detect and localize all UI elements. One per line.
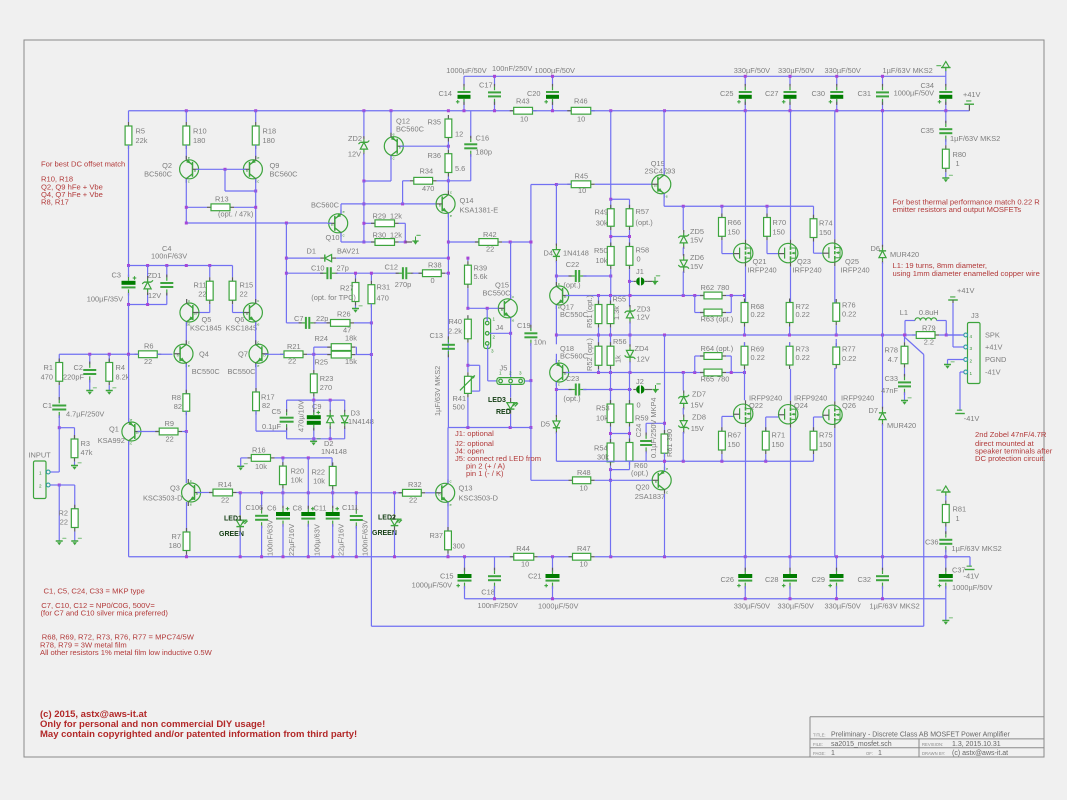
resistor R46: [567, 110, 571, 112]
resistor R74: [813, 206, 815, 219]
svg-text:ZD6: ZD6: [690, 253, 704, 262]
transistor Q1: [122, 422, 141, 441]
wire Q9 collector down to Q6: [255, 179, 257, 303]
wire junction up to R24: [313, 347, 315, 354]
wire Q1 base to R9: [138, 431, 160, 433]
jumper J5: [497, 378, 525, 385]
svg-text:FILE:: FILE:: [813, 742, 823, 747]
svg-text:KSC3503-D: KSC3503-D: [459, 494, 498, 503]
svg-text:0.22: 0.22: [751, 310, 765, 319]
wire Q14 base wire: [364, 203, 436, 205]
wire base node column down to rail: [610, 480, 612, 556]
wire D4 column top: [555, 185, 557, 246]
ground below C33: [904, 392, 906, 400]
wire Q10 base bus connect: [328, 222, 332, 224]
wire R40 to R41: [467, 343, 469, 373]
resistor R5: [128, 111, 130, 122]
svg-text:780: 780: [717, 283, 729, 292]
power symbol +41V rail end: [968, 105, 970, 111]
svg-text:1: 1: [956, 159, 960, 168]
diode D4: [555, 246, 557, 249]
wire R48 to Q20 base: [595, 479, 652, 481]
svg-text:1: 1: [831, 750, 835, 757]
svg-text:10k: 10k: [291, 476, 303, 485]
svg-text:J2: J2: [636, 377, 644, 386]
svg-text:1µF/63V MKS2: 1µF/63V MKS2: [883, 66, 933, 75]
resistor R61: [664, 430, 666, 434]
resistor R2: [74, 505, 76, 509]
resistor R55: [610, 296, 612, 305]
zener ZD6: [682, 248, 684, 256]
zener ZD5: [682, 206, 684, 230]
resistor R78: [904, 335, 906, 342]
ground below R3: [74, 462, 76, 466]
resistor R77: [835, 343, 837, 347]
svg-text:R51 (opt.): R51 (opt.): [585, 295, 594, 328]
svg-text:-41V: -41V: [964, 572, 980, 581]
wire Q1 emitter top: [128, 354, 130, 422]
wire INPUT pin2 to ground: [50, 484, 59, 486]
svg-text:C3: C3: [112, 271, 121, 280]
resistor R8: [185, 390, 187, 394]
svg-text:12V: 12V: [637, 313, 650, 322]
svg-text:82: 82: [174, 402, 182, 411]
svg-text:C26: C26: [720, 575, 734, 584]
wire Q15 base wire: [468, 307, 498, 309]
svg-text:C5: C5: [272, 407, 281, 416]
transistor Q2: [185, 145, 187, 159]
svg-text:R32: R32: [408, 480, 422, 489]
svg-text:C8: C8: [293, 504, 302, 513]
resistor R39: [467, 258, 469, 261]
transistor Q26 MOSFET: [823, 405, 842, 424]
svg-text:C23: C23: [566, 374, 580, 383]
svg-text:1: 1: [493, 317, 496, 322]
svg-text:R34: R34: [420, 167, 434, 176]
wire Q23 drain up: [790, 111, 792, 240]
svg-text:Q26: Q26: [842, 401, 856, 410]
transistor Q3: [182, 483, 201, 502]
svg-text:22p: 22p: [316, 314, 328, 323]
svg-text:15k: 15k: [345, 357, 357, 366]
power symbol +41V top right arrow: [942, 62, 949, 68]
jumper J4: [484, 318, 491, 349]
wire Q10 emitter up to Q14 base wire: [340, 204, 342, 214]
resistor R80: [945, 139, 947, 145]
resistor R21: [280, 353, 284, 355]
svg-text:R20: R20: [291, 467, 305, 476]
wire R5 column to H3: [128, 145, 130, 266]
ground bottom right: [945, 599, 947, 621]
wire R8 to junction R9: [185, 411, 187, 431]
wire C34 column down: [945, 111, 947, 123]
wire R31 feedback column: [370, 304, 372, 627]
wire Q2-Q9 base bus: [196, 168, 246, 170]
svg-text:MUR420: MUR420: [887, 421, 916, 430]
svg-text:22: 22: [409, 496, 417, 505]
resistor R26: [327, 322, 331, 324]
svg-text:INPUT: INPUT: [29, 451, 52, 460]
svg-text:150: 150: [728, 228, 740, 237]
svg-text:15V: 15V: [690, 401, 703, 410]
svg-text:SPK: SPK: [985, 331, 1000, 340]
svg-text:R38: R38: [428, 261, 442, 270]
svg-text:J5: J5: [500, 364, 508, 373]
svg-text:J1: optional: J1: optional: [455, 429, 494, 438]
svg-text:150: 150: [772, 440, 784, 449]
svg-text:780: 780: [717, 375, 729, 384]
svg-text:0.22: 0.22: [751, 353, 765, 362]
resistor R58: [629, 243, 631, 247]
resistor R76: [835, 299, 837, 303]
svg-text:15V: 15V: [691, 424, 704, 433]
svg-text:270p: 270p: [395, 280, 411, 289]
svg-text:Q3: Q3: [170, 484, 180, 493]
capacitor C4: [166, 266, 168, 278]
svg-text:D4: D4: [544, 249, 553, 258]
capacitor C10: [326, 267, 328, 279]
resistor R40: [467, 315, 469, 319]
svg-text:+41V: +41V: [963, 90, 981, 99]
wire Q25 source down: [834, 266, 836, 303]
svg-text:C35: C35: [920, 126, 934, 135]
svg-text:10k: 10k: [313, 477, 325, 486]
svg-text:KSA1381-E: KSA1381-E: [460, 206, 499, 215]
svg-text:D5: D5: [541, 420, 550, 429]
svg-text:330µF/50V: 330µF/50V: [734, 66, 770, 75]
svg-text:C7: C7: [294, 314, 303, 323]
wire R36 to Q14 emitter: [447, 177, 449, 191]
resistor R36: [447, 150, 449, 154]
svg-text:C31: C31: [857, 89, 871, 98]
svg-text:IRFP240: IRFP240: [748, 266, 777, 275]
wire upper bias rail y=295.5: [566, 295, 695, 297]
resistor R14: [197, 492, 213, 494]
jumper J2: [636, 385, 644, 393]
capacitor C19: [524, 332, 537, 334]
zener ZD7: [682, 373, 684, 391]
wire feedback bottom bus: [371, 625, 923, 627]
svg-text:J3: J3: [971, 311, 979, 320]
transistor Q5: [180, 303, 199, 322]
svg-text:KSA992: KSA992: [98, 436, 125, 445]
svg-text:470µ/10V: 470µ/10V: [297, 400, 306, 432]
svg-text:emitter resistors and output M: emitter resistors and output MOSFETs: [893, 205, 1022, 214]
resistor R71: [765, 417, 767, 431]
svg-text:R57: R57: [636, 207, 650, 216]
capacitor C111: [355, 493, 357, 510]
svg-text:(opt.): (opt.): [563, 394, 580, 403]
svg-text:(opt. for TPC): (opt. for TPC): [311, 293, 356, 302]
svg-text:Q24: Q24: [794, 401, 808, 410]
svg-text:(opt. / 47k): (opt. / 47k): [218, 210, 253, 219]
svg-text:3: 3: [970, 346, 973, 351]
svg-text:(opt.): (opt.): [631, 468, 648, 477]
svg-text:R40: R40: [448, 317, 462, 326]
resistor R13: [207, 206, 211, 208]
svg-text:10: 10: [580, 560, 588, 569]
svg-text:C11: C11: [313, 504, 326, 513]
diode D2: [329, 400, 331, 411]
zener ZD1: [147, 266, 149, 278]
svg-text:0.8uH: 0.8uH: [919, 308, 939, 317]
wire R45 to Q19 base: [595, 183, 652, 185]
svg-text:1.3, 2015.10.31: 1.3, 2015.10.31: [952, 741, 1001, 748]
svg-text:ZD8: ZD8: [692, 413, 706, 422]
svg-text:R24: R24: [314, 334, 328, 343]
wire R60 elbow to R54 column: [629, 461, 631, 470]
resistor R32: [399, 492, 403, 494]
svg-text:C21: C21: [528, 572, 542, 581]
svg-text:BC550C: BC550C: [483, 289, 512, 298]
svg-text:R55: R55: [613, 295, 627, 304]
capacitor C16: [470, 111, 472, 139]
resistor R23: [313, 370, 315, 374]
svg-text:c: c: [257, 179, 259, 184]
svg-text:R7: R7: [172, 532, 181, 541]
svg-text:C18: C18: [481, 588, 495, 597]
svg-text:150: 150: [773, 228, 785, 237]
svg-text:4.7µF/250V: 4.7µF/250V: [66, 410, 104, 419]
svg-text:22: 22: [240, 290, 248, 299]
resistor R57: [629, 199, 631, 209]
svg-text:150: 150: [819, 228, 831, 237]
svg-text:D6: D6: [871, 244, 880, 253]
svg-text:C106: C106: [246, 503, 264, 512]
svg-text:R27: R27: [340, 284, 354, 293]
svg-text:0.22: 0.22: [796, 353, 810, 362]
svg-text:3: 3: [491, 349, 494, 354]
wire Q26 source up: [834, 368, 836, 401]
svg-text:330µF/50V: 330µF/50V: [734, 602, 770, 611]
resistor R24: [327, 346, 331, 348]
wire bottom rail segment 2: [538, 556, 573, 558]
ground below C2: [89, 380, 91, 391]
zener ZD8: [682, 408, 684, 415]
svg-text:c: c: [450, 478, 452, 483]
svg-text:R52 (opt.): R52 (opt.): [585, 338, 594, 371]
wire C24 jog: [646, 422, 664, 424]
wire Q12 base to R35 column: [400, 145, 448, 147]
wire R11 to Q5 base: [209, 304, 211, 312]
wire C1 node to INPUT pin1: [58, 428, 60, 472]
resistor R51: [598, 296, 600, 305]
resistor R81: [945, 501, 947, 505]
svg-text:PAGE:: PAGE:: [813, 751, 826, 756]
svg-text:R75: R75: [819, 431, 833, 440]
svg-text:c: c: [257, 339, 259, 344]
wire Q6 emitter to Q7 collector: [255, 322, 257, 344]
capacitor C24: [640, 440, 652, 442]
wire Q25 drain up: [834, 111, 836, 239]
resistor R11: [209, 266, 211, 278]
svg-text:sa2015_mosfet.sch: sa2015_mosfet.sch: [831, 741, 892, 748]
svg-text:R79: R79: [922, 324, 936, 333]
svg-text:10: 10: [521, 560, 529, 569]
resistor R70: [766, 206, 768, 217]
svg-text:(opt.): (opt.): [716, 344, 733, 353]
svg-text:Q1: Q1: [109, 425, 119, 434]
svg-text:C36: C36: [925, 538, 939, 547]
svg-text:C15: C15: [440, 572, 454, 581]
arrow right of J1: [647, 280, 652, 282]
svg-text:R46: R46: [574, 97, 588, 106]
svg-text:10: 10: [520, 115, 528, 124]
wire Q18 collector up: [555, 354, 557, 363]
svg-text:1000µF/50V: 1000µF/50V: [894, 89, 934, 98]
resistor R64 pair loop lower: [695, 372, 704, 374]
wire NMOS gate bus y=206.25: [664, 205, 813, 207]
wire R26 right to R31 column: [354, 322, 371, 324]
svg-text:180: 180: [169, 541, 181, 550]
svg-text:R9: R9: [165, 419, 174, 428]
svg-text:10k: 10k: [596, 414, 608, 423]
capacitor C11: [332, 493, 334, 508]
capacitor C8: [301, 512, 315, 516]
svg-text:R42: R42: [483, 230, 497, 239]
wire Q13 emitter to R37: [447, 502, 449, 531]
svg-text:L1: L1: [900, 308, 908, 317]
svg-text:R81: R81: [953, 505, 967, 514]
svg-text:R78: R78: [884, 346, 898, 355]
resistor R37: [447, 527, 449, 531]
wire J4 pin3 down to J5 pin1: [487, 345, 489, 381]
transistor Q6: [243, 303, 262, 322]
transistor Q18: [550, 363, 569, 382]
svg-text:ZD7: ZD7: [692, 390, 706, 399]
svg-text:Q13: Q13: [459, 484, 473, 493]
svg-text:1µF/63V MKS2: 1µF/63V MKS2: [950, 134, 1000, 143]
resistor R48: [569, 479, 573, 481]
wire J4 pin2 to Q15 emitter column: [489, 332, 511, 334]
wire VAS out net y=242: [448, 241, 479, 243]
ground at J3 pin2 PGND: [948, 359, 964, 361]
svg-text:47k: 47k: [81, 448, 93, 457]
transistor Q22 MOSFET: [734, 404, 753, 423]
zener ZD4: [629, 335, 631, 346]
wire Q5 emitter to Q4 collector: [185, 322, 187, 344]
svg-text:For best DC offset match: For best DC offset match: [41, 160, 125, 169]
svg-text:2: 2: [39, 484, 42, 489]
ground on C9 box: [313, 439, 315, 442]
resistor R25: [327, 354, 331, 356]
resistor R17: [255, 388, 257, 392]
svg-text:180p: 180p: [476, 148, 492, 157]
resistor R56: [610, 335, 612, 346]
svg-text:300: 300: [453, 542, 465, 551]
wire R58 column to ZD3: [629, 269, 631, 306]
capacitor C13: [442, 344, 455, 346]
svg-text:R47: R47: [577, 544, 591, 553]
svg-text:330µF/50V: 330µF/50V: [825, 66, 861, 75]
wire top elbow to D4 column: [531, 184, 557, 186]
svg-text:R37: R37: [429, 531, 443, 540]
svg-text:C2: C2: [74, 363, 83, 372]
svg-text:R30: R30: [373, 230, 387, 239]
wire Q20 emitter up R61: [664, 461, 666, 471]
ground left of R16: [241, 457, 248, 459]
svg-text:R29: R29: [373, 212, 387, 221]
junction dots bottom rail: [185, 555, 188, 558]
svg-text:R74: R74: [819, 219, 833, 228]
zener ZD3: [629, 308, 631, 311]
svg-text:using 1mm diameter enamelled c: using 1mm diameter enamelled copper wire: [893, 269, 1040, 278]
svg-text:R21: R21: [287, 342, 301, 351]
wire R71 to Q24 gate: [766, 416, 779, 418]
svg-text:150: 150: [728, 440, 740, 449]
svg-text:c: c: [343, 233, 345, 238]
svg-text:R22: R22: [311, 468, 325, 477]
svg-text:R11: R11: [193, 281, 206, 290]
title block: [810, 717, 1044, 757]
svg-text:470: 470: [422, 184, 434, 193]
ground below R27: [355, 306, 357, 309]
resistor R68: [744, 299, 746, 303]
wire J3 pin1 to -41V: [959, 372, 961, 411]
wire ZD2 column to Q14 base net: [363, 181, 365, 242]
svg-text:R80: R80: [953, 150, 967, 159]
wire Q3 emitter to R7: [186, 502, 188, 532]
capacitor C25: [744, 76, 746, 85]
svg-text:R25: R25: [314, 358, 328, 367]
svg-text:C20: C20: [527, 89, 541, 98]
resistor R65: [700, 372, 704, 374]
LED LED2: [394, 493, 396, 514]
svg-text:RED: RED: [496, 409, 511, 416]
svg-text:470: 470: [41, 373, 53, 382]
wire R39 to Q15 base node: [467, 288, 469, 308]
capacitor C2: [89, 354, 91, 364]
svg-text:30k: 30k: [596, 219, 608, 228]
wire R41 wiper loop: [468, 364, 480, 366]
svg-text:1: 1: [970, 371, 973, 376]
wire R38 to VAS column: [445, 272, 448, 274]
svg-text:C32: C32: [857, 575, 871, 584]
svg-text:0.22: 0.22: [842, 310, 856, 319]
svg-text:10: 10: [577, 115, 585, 124]
resistor R9: [155, 431, 159, 433]
power -41V supply column right: [942, 486, 949, 492]
svg-text:22: 22: [198, 290, 206, 299]
svg-text:MUR420: MUR420: [890, 250, 919, 259]
svg-text:C25: C25: [720, 89, 734, 98]
svg-text:C29: C29: [811, 575, 825, 584]
svg-text:R62: R62: [701, 283, 715, 292]
svg-text:1µF/63V MKS2: 1µF/63V MKS2: [952, 544, 1002, 553]
wire base bus drop to Q9 collector line: [224, 169, 226, 191]
junction R68 top: [743, 294, 746, 297]
svg-text:22µF/16V: 22µF/16V: [337, 524, 346, 556]
transistor Q19: [652, 175, 671, 194]
wire Q15 collector up: [510, 242, 512, 299]
resistor R6: [135, 353, 139, 355]
wire Q4 emitter to R8: [185, 364, 187, 394]
svg-text:c: c: [257, 298, 259, 303]
capacitor C14: [463, 76, 465, 85]
svg-text:BC550C: BC550C: [228, 367, 257, 376]
svg-text:1: 1: [39, 471, 42, 476]
dot R31 top on C10 net: [370, 272, 373, 275]
svg-text:180: 180: [193, 136, 205, 145]
diode D5: [555, 418, 557, 421]
svg-text:REVISION:: REVISION:: [922, 742, 943, 747]
inductor L1: [904, 321, 906, 336]
LED LED3: [510, 385, 512, 398]
svg-text:C19: C19: [517, 321, 531, 330]
svg-text:2: 2: [970, 359, 973, 364]
svg-text:100nF/250V: 100nF/250V: [478, 601, 518, 610]
svg-text:GREEN: GREEN: [372, 530, 397, 537]
